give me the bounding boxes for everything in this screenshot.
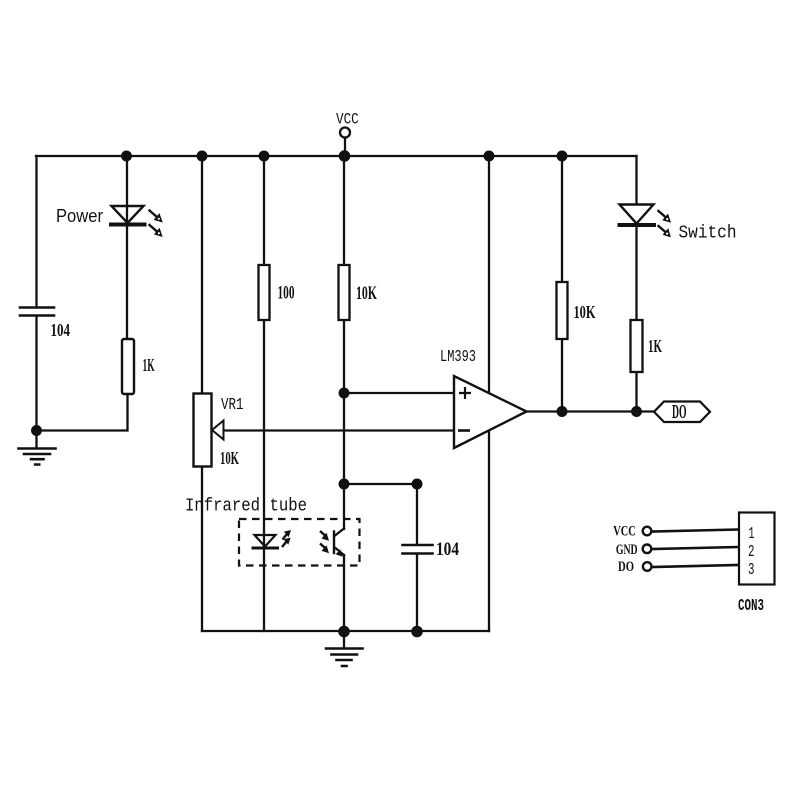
svg-text:Power: Power bbox=[56, 206, 103, 226]
svg-text:VCC: VCC bbox=[336, 111, 359, 129]
svg-text:104: 104 bbox=[436, 539, 459, 560]
svg-text:Switch: Switch bbox=[679, 224, 737, 244]
svg-text:10K: 10K bbox=[356, 284, 377, 304]
svg-text:100: 100 bbox=[278, 284, 295, 304]
svg-text:2: 2 bbox=[748, 543, 755, 562]
svg-text:Infrared tube: Infrared tube bbox=[185, 497, 307, 517]
svg-text:104: 104 bbox=[51, 320, 71, 340]
svg-text:1: 1 bbox=[749, 525, 755, 544]
svg-text:10K: 10K bbox=[574, 302, 596, 322]
svg-text:1K: 1K bbox=[143, 355, 155, 375]
svg-text:3: 3 bbox=[748, 561, 755, 580]
svg-text:CON3: CON3 bbox=[738, 596, 764, 615]
svg-text:DO: DO bbox=[672, 402, 687, 423]
svg-text:DO: DO bbox=[618, 559, 634, 575]
svg-text:VR1: VR1 bbox=[221, 396, 244, 415]
svg-text:GND: GND bbox=[616, 542, 638, 558]
svg-text:10K: 10K bbox=[220, 448, 239, 468]
svg-text:LM393: LM393 bbox=[440, 347, 476, 366]
svg-text:1K: 1K bbox=[648, 336, 662, 356]
svg-text:VCC: VCC bbox=[613, 524, 636, 540]
